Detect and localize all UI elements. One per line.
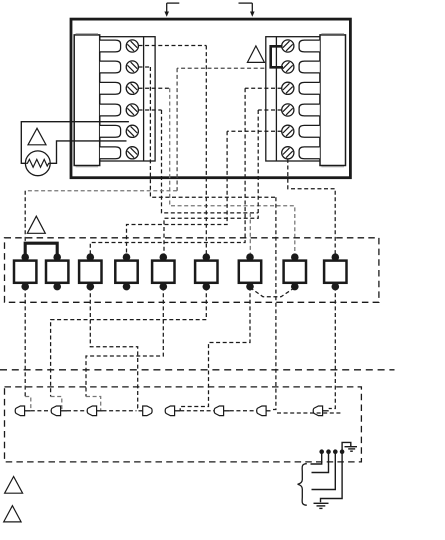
wire load5 bottom to plug3 bbox=[86, 287, 163, 411]
load box 9 with terminal dots bbox=[324, 253, 346, 290]
wire TB2-2 jumper to left (gray) bbox=[177, 67, 264, 69]
shield wire 3 to controller bbox=[312, 452, 336, 490]
shield wire 2 to controller bbox=[312, 452, 329, 473]
wire drop H (TB2-4) to load5 bbox=[164, 110, 258, 255]
note 2 triangle at TB2 jumper bbox=[247, 46, 264, 63]
wire TB2-4 to left bbox=[258, 109, 281, 111]
wire plug6 to plug7 bbox=[230, 410, 257, 412]
wire load1 bottom to plug1 (gray steps) bbox=[25, 287, 31, 411]
factory jumper TB2-1 to TB2-2 (thick) bbox=[271, 46, 283, 67]
load box 6 with terminal dots bbox=[195, 253, 217, 290]
terminal block TB2 strip body bbox=[266, 37, 320, 161]
load box 3 with terminal dots bbox=[79, 253, 101, 290]
wire transformer right lead to TB1-6 (solid) bbox=[50, 141, 126, 163]
TB2 wire-entry fingers (6) bbox=[299, 40, 320, 159]
wire tap to load7 (gray) bbox=[249, 213, 251, 255]
wire sag link load7 to load8 bbox=[250, 288, 295, 297]
wire transformer left lead to TB1-5 (solid) bbox=[21, 122, 129, 164]
wire drop F (TB2-5) to load4 bbox=[127, 131, 228, 254]
wire plug3 to plug4 bbox=[103, 410, 137, 412]
transformer T1 (circle with winding) bbox=[25, 151, 50, 176]
shield wire 1 to controller bbox=[311, 452, 322, 464]
load box 5 with terminal dots bbox=[152, 253, 174, 290]
brace grouping shield wires bbox=[298, 464, 307, 506]
terminal block TB1 housing (left) bbox=[74, 34, 100, 167]
note 2 triangle (legend) bbox=[4, 506, 21, 522]
wire plug1 to plug2 bbox=[31, 410, 51, 412]
controller enclosure box outline bbox=[71, 19, 350, 178]
wire plug5 to plug6 bbox=[180, 410, 214, 412]
quick-connect plug 7 bbox=[257, 406, 271, 416]
field wiring separator dashed line bbox=[0, 369, 395, 371]
note 1 triangle (legend) bbox=[5, 477, 23, 494]
wire TB2-5 to left bbox=[227, 130, 282, 132]
wire drop G (TB2-3) to load3 bbox=[90, 88, 245, 254]
callout arrow left (to terminal strip TB1) bbox=[164, 3, 179, 17]
wire load3 bottom to plug4 bbox=[90, 287, 138, 408]
wire TB2-3 to left bbox=[245, 87, 282, 89]
note 1 triangle at transformer bbox=[28, 128, 46, 145]
wire drop C (TB1-3) to load8 (gray) bbox=[170, 88, 295, 254]
terminal block TB2 housing (right) bbox=[320, 34, 346, 167]
wire TB2-6 down and to load9 bbox=[288, 159, 335, 255]
load box 2 with terminal dots bbox=[46, 253, 68, 290]
wire plug7 to plug8 bbox=[277, 412, 341, 414]
chassis ground symbol (top right) bbox=[342, 442, 357, 451]
wire load6 bottom to plug2 bbox=[51, 287, 207, 411]
wire TB1-4 right jog bbox=[139, 109, 162, 111]
terminal block TB1 strip body bbox=[100, 37, 155, 161]
load box 1 with terminal dots bbox=[14, 253, 36, 290]
load box 4 with terminal dots bbox=[115, 253, 137, 290]
wire load7 bottom to plug5 bbox=[180, 287, 250, 411]
TB1 wire-entry fingers (6) bbox=[100, 40, 121, 159]
wire TB1-2 right jog bbox=[139, 66, 151, 68]
wire drop D (TB2-2) to load1 (gray) bbox=[25, 68, 177, 243]
quick-connect plug 1 bbox=[15, 406, 31, 416]
TB2 screw terminals 1-6 bbox=[282, 40, 294, 159]
quick-connect plug 8 bbox=[313, 406, 329, 416]
wire drop B (TB1-4) link to TB2-4 wire bbox=[162, 110, 259, 213]
earth ground symbol (bottom) bbox=[314, 503, 329, 508]
wire TB1-3 right jog bbox=[139, 87, 170, 89]
wire drop A (TB1-2) to plug7 bbox=[150, 67, 276, 410]
wire load9 bottom to plug8 bbox=[329, 287, 336, 409]
TB1 screw terminals 1-6 bbox=[126, 40, 138, 159]
quick-connect plug 6 bbox=[214, 406, 230, 416]
wire plug2 to plug3 bbox=[67, 410, 87, 412]
wire TB1-1 right jog bbox=[139, 45, 207, 47]
quick-connect plug 3 bbox=[87, 406, 102, 416]
shield wire junction dots (4) bbox=[319, 449, 344, 454]
quick-connect plug 4 (mating half, faces right) bbox=[139, 406, 153, 416]
plug panel dashed enclosure bbox=[5, 387, 362, 462]
callout arrow right (to terminal strip TB2) bbox=[239, 3, 255, 17]
shield wire 4 to earth ground bbox=[321, 452, 343, 503]
quick-connect plug 5 bbox=[165, 406, 180, 416]
field jumper load1 to load2 (thick) bbox=[25, 243, 57, 255]
load panel dashed enclosure bbox=[5, 238, 379, 302]
load box 8 with terminal dots bbox=[284, 253, 306, 290]
wire drop E (TB1-1) to load6 bbox=[205, 46, 207, 255]
note 1 triangle at load jumper bbox=[27, 216, 45, 233]
load box 7 with terminal dots bbox=[239, 253, 261, 290]
quick-connect plug 2 bbox=[51, 406, 67, 416]
